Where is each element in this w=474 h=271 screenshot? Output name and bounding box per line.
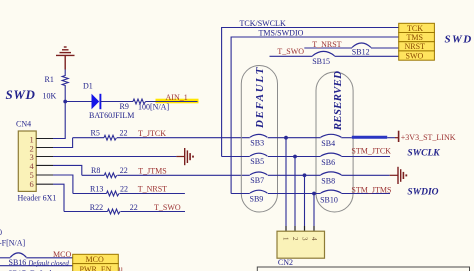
- svg-text:2: 2: [291, 237, 299, 241]
- svg-text:NRST: NRST: [405, 42, 426, 51]
- sheet entry NRST: [399, 42, 435, 52]
- svg-text:T_NRST: T_NRST: [138, 184, 167, 193]
- solder bridge SB16: [0, 257, 10, 259]
- solder bridge SB7: [250, 172, 267, 175]
- solder bridge SB4: [321, 134, 342, 137]
- svg-text:SB9: SB9: [250, 195, 264, 204]
- wire row1 to CN2 pin1: [285, 138, 287, 226]
- wire SWO row: [270, 55, 313, 57]
- svg-text:u: u: [119, 265, 123, 271]
- net AIN_1 highlight: [156, 99, 199, 104]
- group DEFAULT: [241, 66, 277, 213]
- power symbol VDD: [56, 47, 75, 70]
- wire SB7 to SB8: [268, 174, 321, 176]
- wire pin2 to row T_JTCK: [53, 138, 73, 148]
- svg-text:T_JTCK: T_JTCK: [138, 129, 166, 138]
- wire TCK/SWCLK: [222, 28, 399, 157]
- pin 2: [36, 147, 53, 149]
- node on row3: [303, 173, 307, 177]
- svg-text:D1: D1: [83, 82, 93, 91]
- wire pin1 to junction: [53, 102, 65, 139]
- diode D1 BAT60JFILM: [83, 82, 134, 121]
- wire row4 to CN2 pin4: [313, 194, 315, 227]
- resistor R22: [64, 203, 138, 214]
- wire thick +3V3: [352, 136, 387, 139]
- svg-text:SB4: SB4: [321, 139, 335, 148]
- node on row1: [284, 136, 288, 140]
- wire junction to D1: [65, 101, 91, 103]
- svg-text:SB5: SB5: [250, 157, 264, 166]
- connector CN2: [277, 231, 325, 267]
- solder bridge SB15: [313, 51, 335, 55]
- pin 5: [36, 174, 53, 176]
- svg-text:SWO: SWO: [406, 51, 424, 60]
- wire row3 to CN2 pin3: [304, 175, 306, 226]
- wire SB3 to SB4: [268, 137, 321, 139]
- svg-text:10K: 10K: [43, 92, 57, 101]
- wire SB10 right / net STM_JTMS: [341, 193, 390, 195]
- svg-text:R22: R22: [90, 203, 103, 212]
- resistor R8: [82, 166, 128, 178]
- svg-text:BAT60JFILM: BAT60JFILM: [89, 111, 134, 120]
- svg-text:R1: R1: [45, 75, 54, 84]
- wire R13 end: [120, 193, 185, 195]
- svg-text:AIN_1: AIN_1: [166, 93, 188, 102]
- solder bridge SB9: [231, 193, 250, 195]
- svg-text:SWCLK: SWCLK: [407, 149, 440, 159]
- wire D1 to R9: [100, 101, 133, 103]
- node on row4: [312, 192, 316, 196]
- solder bridge SB10: [321, 190, 342, 193]
- svg-text:T_SWO: T_SWO: [277, 47, 304, 56]
- svg-text:0: 0: [0, 228, 2, 237]
- wire SB8 right: [341, 174, 389, 176]
- pin 1: [36, 138, 53, 140]
- CN2 pin stubs: [286, 226, 314, 231]
- svg-text:T_SWO: T_SWO: [154, 203, 181, 212]
- svg-text:4: 4: [310, 237, 318, 241]
- svg-text:SB10: SB10: [320, 196, 338, 205]
- svg-text:R9: R9: [120, 102, 129, 111]
- svg-text:MCO: MCO: [86, 255, 104, 264]
- cut-off text fragments bottom edge: [8, 269, 55, 271]
- wire R8 to SB7: [117, 174, 250, 176]
- svg-text:6: 6: [29, 179, 33, 189]
- svg-text:TCK: TCK: [407, 24, 423, 33]
- svg-text:DEFAULT: DEFAULT: [254, 66, 266, 129]
- solder bridge SB12: [352, 43, 371, 48]
- svg-text:SB8: SB8: [321, 177, 335, 186]
- svg-text:100[N/A]: 100[N/A]: [138, 103, 169, 112]
- solder bridge SB3: [250, 134, 267, 137]
- wire SB5 to SB6: [268, 156, 321, 158]
- wire row2 to CN2 pin2: [294, 157, 296, 227]
- svg-text:CN4: CN4: [16, 120, 31, 129]
- wire NRST row: [304, 47, 352, 49]
- svg-text:PWR_EN: PWR_EN: [80, 265, 112, 271]
- wire PWR_EN row: [0, 265, 73, 267]
- svg-text:SWD: SWD: [6, 87, 36, 102]
- svg-text:RESERVED: RESERVED: [332, 71, 344, 131]
- power port +3V3_ST_LINK: [395, 131, 399, 142]
- svg-text:SB6: SB6: [321, 158, 335, 167]
- wire SB5 left: [222, 156, 250, 158]
- resistor R9: [120, 99, 170, 111]
- solder bridge SB8: [321, 172, 342, 175]
- svg-text:1: 1: [282, 237, 290, 241]
- svg-text:-F[N/A]: -F[N/A]: [0, 239, 26, 248]
- svg-text:Header 6X1: Header 6X1: [18, 194, 57, 203]
- svg-text:STM_JTCK: STM_JTCK: [351, 147, 391, 156]
- svg-text:TMS: TMS: [407, 33, 423, 42]
- sheet entry SWO: [399, 51, 435, 61]
- resistor R1: [43, 70, 69, 102]
- node junction at R1/D1: [63, 100, 67, 104]
- pin 3: [36, 156, 53, 158]
- svg-text:R8: R8: [91, 166, 100, 175]
- wire pin3 to ground: [53, 156, 176, 158]
- solder bridge SB6: [321, 153, 342, 156]
- resistor R5: [73, 129, 128, 141]
- svg-text:SWDIO: SWDIO: [407, 188, 438, 198]
- wire SB9 to SB10: [268, 193, 321, 195]
- group RESERVED: [316, 71, 353, 212]
- wire pin5 to row T_NRST: [53, 175, 73, 194]
- svg-text:SB7: SB7: [250, 176, 264, 185]
- sheet symbol frame bottom: [257, 267, 469, 271]
- svg-text:22: 22: [120, 166, 128, 175]
- svg-text:+3V3_ST_LINK: +3V3_ST_LINK: [401, 133, 456, 142]
- svg-text:MCO: MCO: [53, 250, 71, 259]
- svg-text:STM_JTMS: STM_JTMS: [351, 186, 391, 195]
- sheet entry PWR_EN: [73, 264, 119, 271]
- svg-text:22: 22: [130, 203, 138, 212]
- sheet entry TMS: [399, 33, 435, 43]
- pin 4: [36, 164, 53, 166]
- svg-text:22: 22: [120, 185, 128, 194]
- connector CN4: [16, 120, 56, 203]
- svg-text:SB15: SB15: [312, 57, 330, 66]
- pin 6: [36, 183, 53, 185]
- svg-text:TCK/SWCLK: TCK/SWCLK: [240, 19, 286, 28]
- wire pin4 to row T_JTMS: [53, 165, 82, 175]
- svg-text:22: 22: [120, 129, 128, 138]
- resistor R13: [73, 185, 128, 196]
- sheet entry MCO: [73, 254, 119, 264]
- wire R9 to AIN_1: [146, 101, 198, 103]
- solder bridge SB5: [250, 153, 267, 156]
- svg-text:CN2: CN2: [278, 258, 293, 267]
- svg-text:SB12: SB12: [352, 48, 370, 57]
- svg-text:R13: R13: [90, 185, 103, 194]
- svg-text:SWD: SWD: [445, 34, 473, 46]
- wire SB6 right / net STM_JTCK: [341, 156, 390, 158]
- ground: [176, 148, 193, 165]
- sheet entry TCK: [399, 23, 435, 33]
- svg-text:TMS/SWDIO: TMS/SWDIO: [259, 29, 304, 38]
- node on row2: [293, 155, 297, 159]
- wire SB4 right: [341, 137, 352, 139]
- ground right: [390, 167, 407, 184]
- svg-text:SB3: SB3: [250, 138, 264, 147]
- wire R5 to SB3: [117, 137, 250, 139]
- svg-text:3: 3: [301, 237, 309, 241]
- svg-text:T_JTMS: T_JTMS: [138, 167, 166, 176]
- wire pin6 to row T_SWO: [53, 184, 64, 211]
- wire TMS/SWDIO: [231, 37, 399, 194]
- svg-text:T_NRST: T_NRST: [312, 40, 341, 49]
- wire R22 end: [121, 211, 186, 213]
- svg-text:R5: R5: [91, 129, 100, 138]
